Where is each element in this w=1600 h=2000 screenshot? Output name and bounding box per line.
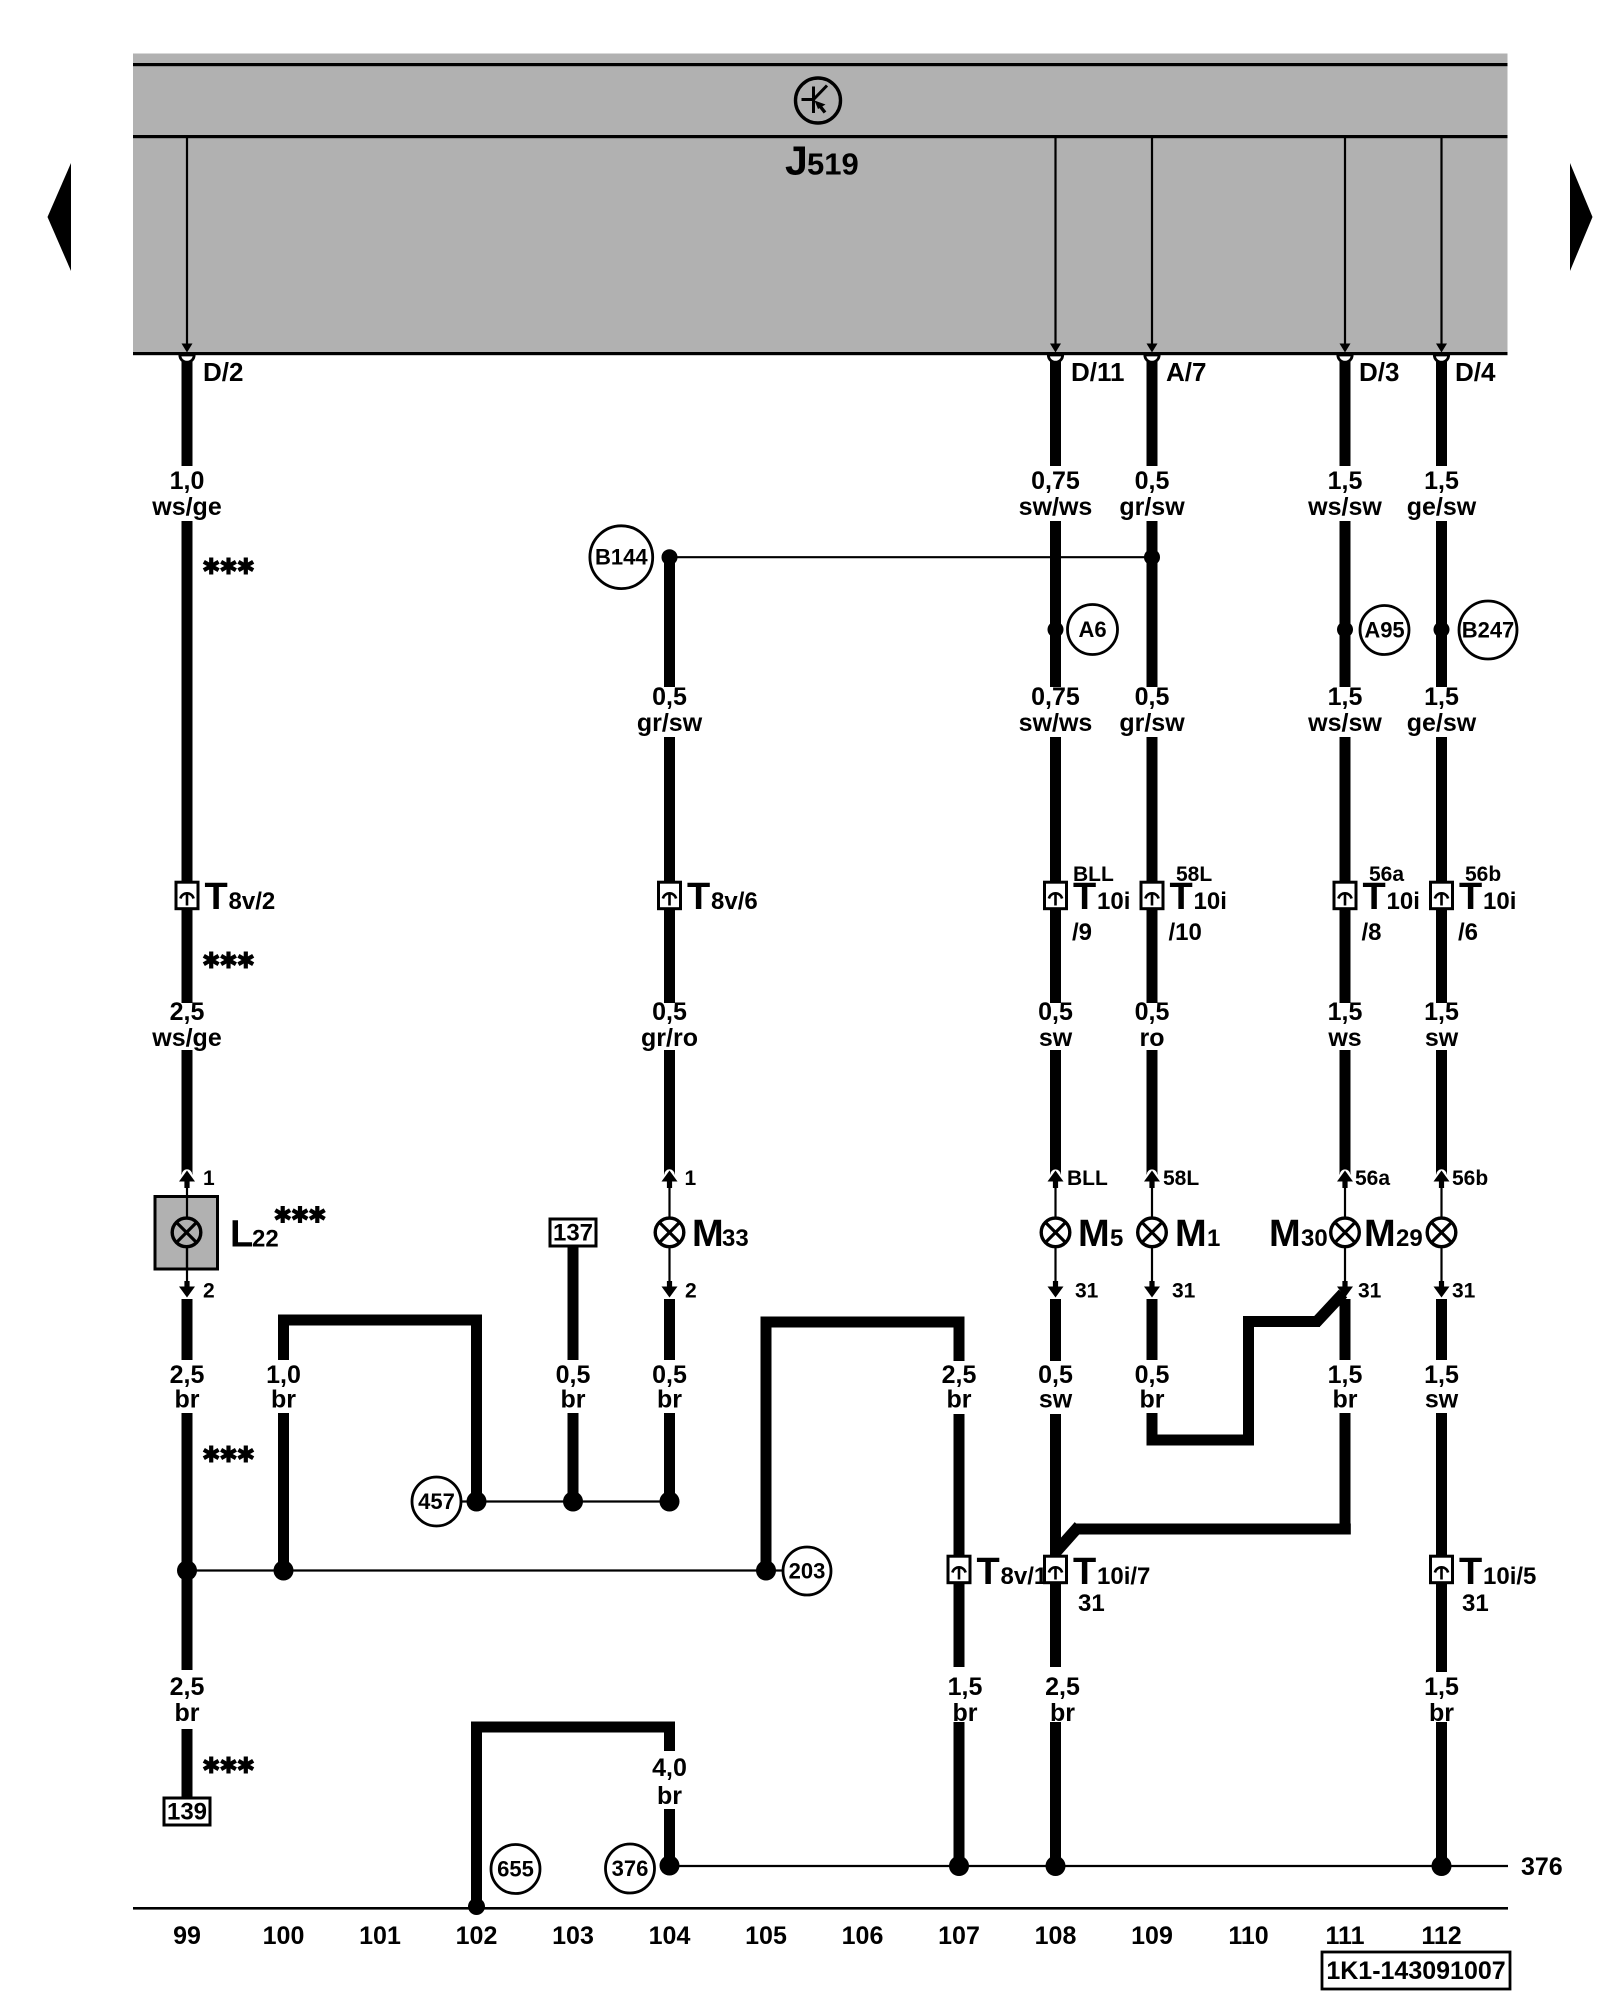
svg-text:ws: ws [1327, 1024, 1361, 1052]
pin 58L of M1 [1144, 1169, 1160, 1218]
socket cup at J519 pin D/11 [1048, 355, 1062, 362]
wire segment to T10i/9 [1050, 737, 1061, 884]
Z-route up segment [1243, 1316, 1254, 1446]
svg-text:br: br [561, 1386, 586, 1414]
svg-text:31: 31 [1462, 1590, 1489, 1617]
svg-text:M: M [1175, 1213, 1207, 1255]
wire below 137 (0,5 br) [568, 1246, 579, 1360]
svg-text:110: 110 [1228, 1922, 1268, 1950]
wire segment through T8v/1 [954, 1414, 965, 1667]
svg-text:br: br [175, 1386, 200, 1414]
connector T10i/8 [1334, 882, 1356, 909]
wire segment to connector T8v/2 [182, 521, 193, 884]
svg-text:sw: sw [1425, 1386, 1459, 1414]
wire below T10i/9 (0,5 sw) [1050, 908, 1061, 1004]
svg-text:2,5: 2,5 [170, 1673, 205, 1701]
page arrow right [1570, 163, 1593, 271]
svg-text:B247: B247 [1462, 618, 1515, 643]
svg-text:1: 1 [203, 1167, 215, 1190]
svg-text:8v/1: 8v/1 [1001, 1563, 1048, 1590]
wire A/7 (0,5 gr/sw) below J519 [1147, 357, 1158, 466]
ground wire 4,0 br hook horizontal segment [471, 1722, 675, 1733]
ground designation circle 203 [783, 1547, 831, 1595]
label T8v/2 [205, 876, 276, 918]
label M5 [1078, 1213, 1123, 1255]
svg-text:1,5: 1,5 [1424, 1673, 1459, 1701]
svg-text:M: M [1269, 1213, 1301, 1255]
pin 31 of M1 [1144, 1247, 1160, 1305]
lamp M1 [1138, 1218, 1167, 1247]
svg-text:2: 2 [203, 1280, 215, 1303]
svg-text:519: 519 [807, 147, 859, 182]
connection circle B247 [1459, 601, 1517, 659]
wire segment with A6 tap [1050, 521, 1061, 687]
svg-text:0,5: 0,5 [1135, 467, 1170, 495]
svg-text:109: 109 [1131, 1922, 1173, 1950]
wire below T10i/8 (1,5 ws) [1340, 908, 1351, 1004]
svg-text:655: 655 [497, 1857, 534, 1882]
ground line 203 (thin) [187, 1569, 785, 1571]
wire below M29 (1,5 sw) [1436, 1299, 1447, 1360]
junction dot A95 tap [1337, 622, 1353, 638]
lamp symbol L22 [172, 1218, 201, 1247]
ground connection 137 [550, 1219, 596, 1247]
current track numbers 99-112 [173, 1922, 1462, 1950]
wire below T8v/6 (0,5 gr/ro) [664, 908, 675, 1004]
connection circle B144 [590, 526, 653, 589]
wire bridge corner (1,0 br) horizontal segment [278, 1315, 482, 1326]
J519 pin D/2 wire inside box [182, 138, 193, 353]
svg-text:ge/sw: ge/sw [1407, 709, 1477, 737]
svg-text:58L: 58L [1163, 1167, 1199, 1190]
label T10i/5 31 [1459, 1551, 1536, 1593]
svg-text:56b: 56b [1452, 1167, 1488, 1190]
asterisks marker *** [204, 952, 253, 969]
ground line 376 (thin) [670, 1865, 1509, 1867]
pin 31 of M30 [1337, 1247, 1353, 1305]
wire segment to 376 line [1050, 1722, 1061, 1866]
svg-text:br: br [175, 1699, 200, 1727]
svg-text:2: 2 [685, 1280, 697, 1303]
svg-text:4,0: 4,0 [652, 1754, 687, 1782]
wire segment to T10i/8 [1340, 737, 1351, 884]
bridge vertical on track 105 down to 203 line [761, 1317, 772, 1571]
wire segment to lamp M29 [1436, 1050, 1447, 1175]
diagram id box 1K1-143091007 [1322, 1952, 1510, 1989]
svg-text:33: 33 [722, 1225, 749, 1252]
J519 inner separator line [133, 135, 1508, 138]
ground line 457 (thin) [461, 1500, 670, 1502]
svg-text:sw: sw [1039, 1386, 1073, 1414]
wire 1,0 br vertical segment [278, 1315, 289, 1361]
hook vertical on track 102 to bottom rail [471, 1722, 482, 1908]
svg-text:sw/ws: sw/ws [1019, 709, 1093, 737]
socket cup at J519 pin D/2 [180, 355, 194, 362]
svg-text:1K1-143091007: 1K1-143091007 [1326, 1957, 1505, 1985]
svg-text:sw: sw [1425, 1024, 1459, 1052]
svg-text:gr/sw: gr/sw [637, 709, 703, 737]
svg-text:1: 1 [1207, 1225, 1220, 1252]
wire segment to 31-bus [1340, 1413, 1351, 1535]
svg-text:T: T [1459, 876, 1482, 918]
svg-text:ws/ge: ws/ge [151, 493, 222, 521]
ground designation circle 376 [606, 1844, 655, 1893]
asterisks marker *** [204, 558, 253, 575]
junction dot on 203 line [756, 1561, 776, 1581]
socket cup at J519 pin D/4 [1434, 355, 1448, 362]
wire D/11 (0,75 sw/ws) below J519 [1050, 357, 1061, 466]
svg-text:1: 1 [685, 1167, 697, 1190]
connector T10i/9 [1045, 882, 1067, 909]
svg-text:BLL: BLL [1067, 1167, 1108, 1190]
svg-text:L: L [230, 1214, 253, 1256]
svg-text:111: 111 [1326, 1922, 1365, 1950]
svg-text:8v/6: 8v/6 [711, 888, 758, 915]
junction dot on 457 line [660, 1492, 680, 1512]
svg-text:1,5: 1,5 [1328, 683, 1363, 711]
wire segment to T10i/6 [1436, 737, 1447, 884]
svg-text:1,0: 1,0 [170, 467, 205, 495]
asterisks marker *** [204, 1446, 253, 1463]
Z-route horizontal segment [1147, 1435, 1255, 1446]
Z-route wire from M1 to M30 pin 31: down segment [1147, 1413, 1158, 1446]
wire segment to 203 line [278, 1413, 289, 1571]
connector T8v/2 [176, 882, 198, 909]
wire below M5 (0,5 sw) [1050, 1299, 1061, 1361]
connector T8v/1 [948, 1556, 970, 1583]
ground connection 139 [164, 1798, 210, 1826]
svg-text:br: br [947, 1386, 972, 1414]
svg-text:0,5: 0,5 [652, 998, 687, 1026]
bottom rail line [133, 1907, 1508, 1910]
svg-text:112: 112 [1421, 1922, 1461, 1950]
wire D/3 (1,5 ws/sw) below J519 [1340, 357, 1351, 466]
junction dot on 203 line [274, 1561, 294, 1581]
svg-text:10i/7: 10i/7 [1097, 1563, 1150, 1590]
svg-text:457: 457 [418, 1489, 455, 1514]
svg-text:ge/sw: ge/sw [1407, 493, 1477, 521]
hook vertical on track 104 (4,0 br) [664, 1722, 675, 1752]
wire below T10i/10 (0,5 ro) [1147, 908, 1158, 1004]
wire 0,5 gr/sw from B144 tap [664, 557, 675, 687]
wire segment to ground 139 [182, 1729, 193, 1798]
J519 pin D/3 wire inside box [1340, 138, 1351, 353]
connection circle A95 [1360, 606, 1409, 655]
svg-text:31: 31 [1078, 1590, 1105, 1617]
svg-text:106: 106 [842, 1922, 884, 1950]
wire segment through T10i/7 to 376 line [1050, 1414, 1061, 1667]
svg-text:gr/ro: gr/ro [641, 1024, 698, 1052]
junction dot at B144 tap [662, 549, 678, 565]
svg-text:30: 30 [1301, 1225, 1328, 1252]
pin BLL of M5 [1048, 1169, 1064, 1218]
svg-text:101: 101 [359, 1922, 401, 1950]
pin 1 of M33 [662, 1169, 678, 1218]
svg-text:T: T [977, 1551, 1000, 1593]
svg-text:1,5: 1,5 [1424, 998, 1459, 1026]
svg-text:376: 376 [1521, 1853, 1563, 1881]
label M33 [692, 1213, 749, 1255]
junction dot on A/7 wire [1144, 549, 1160, 565]
svg-text:31: 31 [1358, 1280, 1382, 1303]
svg-text:T: T [1363, 876, 1386, 918]
J519 top border line [133, 63, 1508, 66]
pin 2 of L22 [179, 1247, 195, 1305]
wire segment from bridge down to 457 line [471, 1315, 482, 1502]
junction dot on 376 line [949, 1856, 969, 1876]
wire segment to 457 line [568, 1413, 579, 1502]
J519 pin D/4 wire inside box [1436, 138, 1447, 353]
svg-text:J: J [785, 138, 808, 184]
pin 56a of M30 [1337, 1169, 1353, 1218]
svg-text:0,5: 0,5 [1038, 998, 1073, 1026]
svg-text:M: M [1078, 1213, 1110, 1255]
svg-text:22: 22 [252, 1226, 279, 1253]
wire D/2 segment (1,0 ws/ge) below J519 [182, 357, 193, 466]
svg-text:/6: /6 [1458, 919, 1478, 946]
wire segment to T10i/10 [1147, 737, 1158, 884]
ignition-switch symbol (circled K) on J519 [796, 78, 841, 123]
wire below M33 (0,5 br) [664, 1299, 675, 1360]
svg-text:T: T [687, 876, 710, 918]
svg-text:29: 29 [1396, 1225, 1423, 1252]
svg-text:A95: A95 [1364, 618, 1404, 643]
svg-text:D/3: D/3 [1359, 357, 1399, 387]
junction dot B247 tap [1434, 622, 1450, 638]
svg-text:ws/ge: ws/ge [151, 1024, 222, 1052]
wire below M1 (0,5 br) [1147, 1299, 1158, 1360]
wire segment to 376 line [1436, 1722, 1447, 1866]
wire segment to lamp M33 pin 1 [664, 1050, 675, 1175]
wire segment through T10i/5 [1436, 1413, 1447, 1672]
svg-text:gr/sw: gr/sw [1119, 493, 1185, 521]
label T8v/1 [977, 1551, 1048, 1593]
label J519 [785, 138, 859, 184]
label T10i/7 31 [1073, 1551, 1150, 1593]
svg-text:31: 31 [1075, 1280, 1099, 1303]
svg-text:/10: /10 [1169, 919, 1202, 946]
svg-text:br: br [1140, 1386, 1165, 1414]
svg-text:203: 203 [789, 1559, 826, 1584]
lamp L22 housing (gray box) [155, 1197, 218, 1270]
wire segment with B247 tap [1436, 521, 1447, 687]
ground designation circle 457 [412, 1477, 461, 1526]
connector T10i/10 [1141, 882, 1163, 909]
svg-text:139: 139 [167, 1799, 207, 1826]
svg-text:ro: ro [1140, 1024, 1165, 1052]
wire through L22 housing [186, 1197, 188, 1270]
wire segment below L22 (2,5 br) [182, 1299, 193, 1360]
J519 pin A/7 wire inside box [1147, 138, 1158, 353]
J519 pin D/11 wire inside box [1050, 138, 1061, 353]
svg-text:0,5: 0,5 [1135, 683, 1170, 711]
svg-text:0,75: 0,75 [1031, 467, 1080, 495]
svg-text:br: br [271, 1386, 296, 1414]
wire segment below junction (2,5 br) [182, 1571, 193, 1671]
svg-text:0,75: 0,75 [1031, 683, 1080, 711]
svg-text:T: T [1073, 1551, 1096, 1593]
svg-text:T: T [1073, 876, 1096, 918]
svg-text:31: 31 [1172, 1280, 1196, 1303]
connector T10i/7 [1045, 1556, 1067, 1583]
wire segment to 457 line [664, 1413, 675, 1502]
wire segment to lamp L22 pin 1 [182, 1050, 193, 1175]
svg-text:D/2: D/2 [203, 357, 243, 387]
svg-text:56a: 56a [1355, 1167, 1390, 1190]
thin link line from B144 tap to A/7 wire [670, 556, 1153, 558]
svg-text:D/11: D/11 [1071, 357, 1125, 387]
lamp M30 [1331, 1218, 1360, 1247]
junction dot on 457 line [467, 1492, 487, 1512]
wire segment with A95 tap [1340, 521, 1351, 687]
wire segment to 376 line [664, 1809, 675, 1866]
svg-text:102: 102 [456, 1922, 498, 1950]
svg-text:8v/2: 8v/2 [229, 888, 276, 915]
svg-text:gr/sw: gr/sw [1119, 709, 1185, 737]
lamp M33 [655, 1218, 684, 1247]
wire segment below T8v/2 (2,5 ws/ge) [182, 908, 193, 1004]
lamp M29 [1427, 1218, 1456, 1247]
svg-text:1,5: 1,5 [1424, 467, 1459, 495]
svg-text:10i: 10i [1387, 888, 1420, 915]
svg-text:108: 108 [1035, 1922, 1077, 1950]
pin 2 of M33 [662, 1247, 678, 1305]
junction dot on bottom rail [468, 1898, 485, 1915]
svg-text:M: M [692, 1213, 724, 1255]
junction dot A6 tap [1048, 622, 1064, 638]
svg-text:B144: B144 [595, 545, 648, 570]
junction dot on 457 line [563, 1492, 583, 1512]
bridge vertical on track 107 (2,5 br) [954, 1317, 965, 1362]
svg-text:ws/sw: ws/sw [1307, 493, 1382, 521]
junction dot on 376 line [1046, 1856, 1066, 1876]
wire below M30 (1,5 br) [1340, 1299, 1351, 1360]
wire D/4 (1,5 ge/sw) below J519 [1436, 357, 1447, 466]
svg-text:31: 31 [1452, 1280, 1476, 1303]
svg-text:1,5: 1,5 [948, 1673, 983, 1701]
svg-text:A/7: A/7 [1166, 357, 1206, 387]
socket cup at J519 pin D/3 [1338, 355, 1352, 362]
Z-route diagonal to M30 pin 31 [1316, 1294, 1343, 1323]
pin 31 of M5 [1048, 1247, 1064, 1305]
wire segment to lamp M5 [1050, 1050, 1061, 1175]
svg-text:10i/5: 10i/5 [1483, 1563, 1536, 1590]
svg-text:103: 103 [552, 1922, 594, 1950]
svg-text:10i: 10i [1097, 888, 1130, 915]
svg-text:104: 104 [649, 1922, 691, 1950]
label M29 [1364, 1213, 1423, 1255]
wire segment to lamp M1 [1147, 1050, 1158, 1175]
pin 1 of L22 [179, 1169, 195, 1218]
svg-text:10i: 10i [1194, 888, 1227, 915]
label M1 [1175, 1213, 1220, 1255]
wire below T10i/6 (1,5 sw) [1436, 908, 1447, 1004]
J519 bottom border line [133, 352, 1508, 355]
asterisks marker *** [204, 1757, 253, 1774]
svg-text:/8: /8 [1362, 919, 1382, 946]
svg-text:/9: /9 [1072, 919, 1092, 946]
lamp M5 [1041, 1218, 1070, 1247]
wire bridge (2,5 br) horizontal segment [761, 1317, 965, 1328]
svg-text:0,5: 0,5 [652, 683, 687, 711]
svg-text:1,5: 1,5 [1328, 998, 1363, 1026]
ground designation circle 655 [491, 1845, 540, 1894]
wire segment to lamp M30 [1340, 1050, 1351, 1175]
svg-text:br: br [657, 1782, 682, 1810]
svg-text:br: br [1333, 1386, 1358, 1414]
wire segment to 376 line [954, 1722, 965, 1866]
connector T10i/5 [1431, 1556, 1453, 1583]
svg-text:T: T [1459, 1551, 1482, 1593]
svg-text:376: 376 [612, 1856, 649, 1881]
label L22 *** [230, 1214, 279, 1256]
junction dot start of 376 line [660, 1856, 680, 1876]
junction dot on 376 line [1432, 1856, 1452, 1876]
svg-text:M: M [1364, 1213, 1396, 1255]
socket cup at J519 pin A/7 [1145, 355, 1159, 362]
svg-text:ws/sw: ws/sw [1307, 709, 1382, 737]
svg-text:0,5: 0,5 [1135, 998, 1170, 1026]
svg-text:T: T [205, 876, 228, 918]
wire segment through B144 tap [1147, 521, 1158, 687]
31-bus horizontal segment [1074, 1524, 1351, 1535]
31-bus diagonal joining T10i/7 wire [1055, 1526, 1079, 1553]
svg-text:1,5: 1,5 [1424, 683, 1459, 711]
svg-text:A6: A6 [1078, 617, 1106, 642]
pin 56b of M29 [1434, 1169, 1450, 1218]
svg-text:sw/ws: sw/ws [1019, 493, 1093, 521]
label M30 [1269, 1213, 1328, 1255]
svg-text:2,5: 2,5 [170, 998, 205, 1026]
svg-text:105: 105 [745, 1922, 787, 1950]
svg-text:100: 100 [263, 1922, 305, 1950]
svg-text:107: 107 [938, 1922, 980, 1950]
svg-text:br: br [657, 1386, 682, 1414]
control unit J519 body (gray bus bar) [133, 54, 1508, 355]
svg-text:2,5: 2,5 [1045, 1673, 1080, 1701]
wire segment to junction with 203 line [182, 1413, 193, 1571]
svg-text:1,5: 1,5 [1328, 467, 1363, 495]
label T8v/6 [687, 876, 758, 918]
page arrow left [48, 163, 72, 271]
svg-text:sw: sw [1039, 1024, 1073, 1052]
svg-text:99: 99 [173, 1922, 201, 1950]
wire segment to T8v/6 [664, 737, 675, 884]
connector T8v/6 [659, 882, 681, 909]
connector T10i/6 [1431, 882, 1453, 909]
connection circle A6 [1068, 605, 1118, 655]
Z-route top horizontal segment [1243, 1316, 1320, 1327]
svg-text:T: T [1170, 876, 1193, 918]
svg-text:5: 5 [1110, 1225, 1123, 1252]
junction dot on ground line 203 [177, 1561, 197, 1581]
pin 31 of M29 [1434, 1247, 1450, 1305]
svg-text:10i: 10i [1483, 888, 1516, 915]
svg-text:137: 137 [553, 1220, 593, 1247]
svg-text:D/4: D/4 [1455, 357, 1496, 387]
